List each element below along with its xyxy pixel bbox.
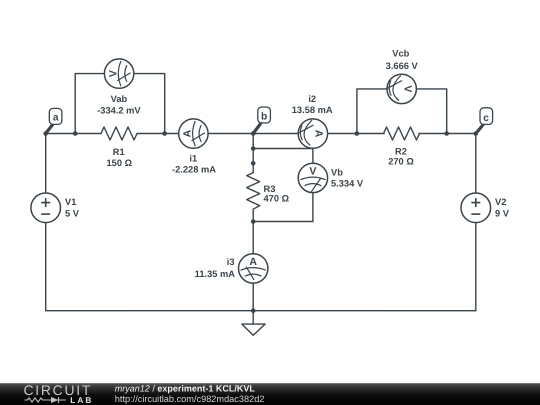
wire R1 to i1 [137,133,179,135]
svg-text:470 Ω: 470 Ω [264,194,290,204]
svg-text:Vb: Vb [331,167,343,177]
junction ground bus [251,308,256,313]
svg-text:A: A [182,129,194,137]
wire node a to V1 [45,134,47,194]
wire Vab loop right [134,74,165,134]
svg-text:3.666 V: 3.666 V [386,61,419,71]
svg-text:270 Ω: 270 Ω [388,156,414,166]
wire node b to Vb top [253,149,313,164]
wire R3 to i3 [252,209,254,254]
node c flag [476,108,493,134]
svg-text:V: V [309,165,316,177]
svg-text:R3: R3 [264,184,276,194]
svg-text:5 V: 5 V [65,208,80,218]
ammeter i2 [298,119,327,148]
svg-text:R2: R2 [395,147,407,157]
wire node c to V2 [475,134,477,194]
svg-text:V1: V1 [65,197,76,207]
svg-text:mryan12 / experiment-1 KCL/KVL: mryan12 / experiment-1 KCL/KVL [115,384,256,394]
ammeter i1 [179,119,208,148]
svg-text:R1: R1 [113,147,125,157]
svg-text:i2: i2 [308,94,316,104]
voltmeter Vab [104,59,133,88]
svg-text:V2: V2 [495,197,506,207]
svg-text:-334.2 mV: -334.2 mV [97,106,141,116]
node b flag [253,107,270,133]
wire V1 to ground bus [45,223,47,311]
voltmeter Vcb [387,74,416,103]
svg-text:Vcb: Vcb [392,48,409,58]
CircuitLab logo circuit glyph [25,397,67,403]
ground [242,324,265,335]
wire Vb bottom to R3 bottom [253,193,313,222]
wire R2 to node c [419,133,476,135]
node a flag [46,108,62,133]
svg-text:a: a [53,113,59,124]
junction Vab right [162,131,167,136]
junction node b [251,131,256,136]
svg-text:A: A [313,130,325,138]
footer bar [0,383,540,405]
wire ground bus [46,310,476,312]
svg-text:A: A [249,256,257,268]
wire Vcb loop left [357,89,387,134]
wire i1 to node b [208,133,253,135]
wire Vab loop left [75,74,104,134]
wire node b to i2 [253,133,298,135]
wire node a to R1 [46,133,101,135]
junction b-Vb branch [251,146,256,151]
voltage source V2 [461,193,491,223]
svg-text:9 V: 9 V [495,208,510,218]
wire ground stub [252,311,254,324]
resistor R2 [384,127,420,140]
wire node b to R3 [252,134,254,173]
wire V2 to ground bus [475,223,477,311]
junction Vab left [73,131,78,136]
svg-text:5.334 V: 5.334 V [331,179,364,189]
junction R3 top [251,161,256,166]
wire Vcb loop right [416,89,446,134]
resistor R3 [247,173,260,210]
svg-text:V: V [107,70,119,77]
svg-text:11.35 mA: 11.35 mA [195,269,236,279]
resistor R1 [101,127,137,140]
junction node c [474,131,479,136]
svg-text:c: c [483,113,489,124]
ammeter i3 [239,254,268,283]
svg-text:V: V [402,85,414,92]
svg-text:-2.228 mA: -2.228 mA [172,165,216,175]
svg-text:13.58 mA: 13.58 mA [292,105,333,115]
junction Vcb right [444,131,449,136]
wire i3 to ground bus [252,283,254,311]
svg-text:i3: i3 [227,257,235,267]
svg-text:i1: i1 [189,154,197,164]
voltmeter Vb [298,163,327,192]
svg-text:LAB: LAB [70,395,93,405]
svg-text:b: b [261,112,267,123]
svg-text:150 Ω: 150 Ω [107,158,133,168]
junction R3 bottom Vb return [251,219,256,224]
junction node a [43,131,48,136]
svg-text:Vab: Vab [111,94,128,104]
svg-text:http://circuitlab.com/c982mdac: http://circuitlab.com/c982mdac382d2 [115,394,265,404]
wire i2 to R2 [328,133,385,135]
voltage source V1 [31,193,61,223]
junction Vcb left [355,131,360,136]
